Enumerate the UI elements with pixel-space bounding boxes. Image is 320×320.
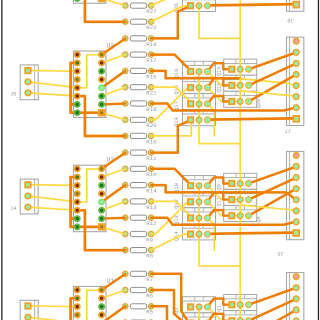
wire J pin2 to U pin lp5 xyxy=(28,82,77,88)
svg-text:R9: R9 xyxy=(146,236,153,243)
wire U rp2 to R17 left xyxy=(102,55,126,63)
transistor Q8 xyxy=(224,206,257,222)
wire U rp8 to R20 left xyxy=(102,227,126,234)
connector J7 (8-pin output header) xyxy=(287,37,304,125)
svg-text:R8: R8 xyxy=(146,253,153,260)
resistor R14 xyxy=(130,183,146,188)
wire QB1 to J pad2 xyxy=(249,288,297,305)
svg-text:J5: J5 xyxy=(277,250,284,257)
wire QA2 collector to QB2 base xyxy=(207,193,228,202)
wire R7 right riser down xyxy=(151,274,187,320)
svg-text:Q20: Q20 xyxy=(256,99,262,109)
transistor Q1 xyxy=(224,295,257,311)
svg-text:Q15: Q15 xyxy=(216,67,222,77)
wire U rp5 to R15 left xyxy=(102,185,126,202)
resistor R7 xyxy=(130,271,146,276)
wire QA1 collector to QB1 base xyxy=(207,177,228,185)
wire U rp7 to R18 left xyxy=(102,102,126,105)
wire R17 right to QA1 base xyxy=(151,169,191,186)
transistor Q20 xyxy=(224,91,257,107)
op-amp/driver IC U3 xyxy=(74,51,107,118)
pads of transistor Q12 xyxy=(187,198,194,205)
transistor Q24 xyxy=(183,110,216,126)
op-amp/driver IC U4 xyxy=(74,0,107,3)
wire R16 right to QA4 base xyxy=(151,234,191,250)
svg-text:R12: R12 xyxy=(146,220,157,227)
pads of transistor Q10 xyxy=(187,182,194,189)
svg-text:R6: R6 xyxy=(146,292,153,299)
wire R18 right to J pad7 xyxy=(151,104,296,111)
wire via to J pad5 xyxy=(240,79,296,86)
pads of IC U4 xyxy=(74,0,81,2)
svg-text:R10: R10 xyxy=(146,171,157,178)
resistor R11 xyxy=(130,150,146,155)
svg-text:Q8: Q8 xyxy=(256,216,262,222)
wire J pin2 to U pin lp5 xyxy=(28,317,77,320)
wire QB3 to J pad4 xyxy=(249,189,297,216)
wire U rp8 to R20 left xyxy=(102,113,126,120)
wire U rp5 to R15 left xyxy=(102,306,126,320)
transistor Q19 xyxy=(183,61,216,77)
svg-text:R5: R5 xyxy=(146,309,153,316)
transistor Q14 xyxy=(183,224,216,240)
wire QA4 collector to J square pad xyxy=(207,118,294,119)
svg-text:R23: R23 xyxy=(146,24,157,31)
pads of connector J6 xyxy=(24,67,31,74)
transistor Q13 xyxy=(183,208,216,224)
svg-text:J9: J9 xyxy=(287,17,294,24)
transistor Q18 xyxy=(224,75,257,91)
board edge left xyxy=(1,0,2,320)
svg-text:R15: R15 xyxy=(146,73,157,80)
pads of transistor Q14 xyxy=(187,231,194,238)
wire U rp1 to R19 left xyxy=(102,274,126,290)
wire R21 right to QA3 base xyxy=(151,87,191,103)
wire to J pad6 xyxy=(240,91,296,96)
transistor Q9 xyxy=(224,173,257,189)
svg-text:R7: R7 xyxy=(146,276,153,283)
wire QA3 stub xyxy=(207,218,214,250)
transistor Q11 xyxy=(224,189,257,205)
op-amp/driver IC U1 xyxy=(74,286,107,320)
wire QB2 to J pad3 xyxy=(249,299,297,320)
wire QB middle-pad chain xyxy=(239,305,241,320)
wire QA3 collector to QB3 base xyxy=(207,96,228,104)
transistor Q3 xyxy=(224,311,257,320)
pads of transistor Q2 xyxy=(187,303,194,310)
resistor R16 xyxy=(130,133,146,138)
wire QB1 to J pad2 xyxy=(249,52,297,69)
wire U internal lp5 to rp1 xyxy=(77,169,101,202)
transistor Q2 xyxy=(183,297,216,313)
wire U ground bus xyxy=(71,63,102,113)
svg-text:R21: R21 xyxy=(146,90,157,97)
resistor R19 xyxy=(130,36,146,41)
wire R5 right down xyxy=(151,306,167,320)
wire R20 right to QA2 base xyxy=(151,202,191,234)
wire U rp2 to R17 left xyxy=(102,290,126,298)
wire QB3 to J pad4 xyxy=(249,75,297,102)
wire U rp5 to R15 left xyxy=(102,71,126,88)
connector J5 (8-pin output header) xyxy=(287,151,304,239)
pads of connector J9 xyxy=(292,1,300,9)
svg-text:R13: R13 xyxy=(146,204,157,211)
svg-text:R16: R16 xyxy=(146,138,157,145)
wire QA1 collector to QB1 base xyxy=(207,299,228,307)
wire QB2 to J pad3 xyxy=(249,64,297,86)
svg-text:R11: R11 xyxy=(146,155,157,162)
pads of transistor Q3 xyxy=(228,317,235,320)
wire U rp8 to R20 left xyxy=(102,0,126,6)
pads of IC U2 xyxy=(74,165,81,172)
pads of IC U3 xyxy=(74,51,81,58)
connector J4 (3-pin input header) xyxy=(20,179,38,214)
svg-text:R17: R17 xyxy=(146,57,156,64)
wire R16 right to QA4 base xyxy=(151,120,191,136)
pads of transistor Q24 xyxy=(187,116,194,123)
transistor Q10 xyxy=(183,176,216,192)
transistor Q4 xyxy=(183,313,216,320)
wire QA2 right diag xyxy=(207,202,240,216)
wire J pin1 to U pin lp3 xyxy=(28,184,77,187)
wire R15 right to J pad5 xyxy=(151,185,296,200)
transistor Q15 xyxy=(224,59,257,75)
wire R15 right horizontal xyxy=(151,71,240,78)
pads of transistor Q18 xyxy=(228,82,235,89)
wire Q middle-pad common chain xyxy=(199,72,240,144)
wire QA1 right diag xyxy=(207,72,240,86)
wire QA1 right diag xyxy=(207,186,240,200)
wire J pin2 to U pin lp5 xyxy=(28,196,77,202)
wire J pin1 to U pin lp3 xyxy=(28,69,77,72)
resistor R9 xyxy=(130,231,146,236)
svg-text:J6: J6 xyxy=(10,92,16,98)
resistor R5 xyxy=(130,304,146,309)
connector J9 (8-pin output header) xyxy=(287,0,304,11)
connector J3 (8-pin output header) xyxy=(287,273,304,320)
resistor R13 xyxy=(130,199,146,204)
wire U rp1 to R19 left xyxy=(102,39,126,55)
svg-text:Q1: Q1 xyxy=(216,305,222,311)
wire QA2 collector to QB2 base xyxy=(207,78,228,87)
resistor R8 xyxy=(130,248,146,253)
wire R18 right to J pad7 xyxy=(151,218,296,225)
pads of transistor Q16 xyxy=(187,84,194,91)
wire QA1 collector to QB1 base xyxy=(207,63,228,71)
svg-text:J4: J4 xyxy=(10,206,16,212)
wire R20 right to QA2 base xyxy=(151,88,191,120)
wire QA4 collector to J square pad xyxy=(207,4,294,5)
wire QB3 to J pad4 xyxy=(249,310,297,320)
connector J6 (3-pin input header) xyxy=(20,65,38,100)
pads of IC U1 xyxy=(74,287,81,294)
pads of transistor Q19 xyxy=(187,68,194,75)
resistor R6 xyxy=(130,287,146,292)
wire QA2 collector to QB2 base xyxy=(207,314,228,320)
transistor Q17 xyxy=(183,94,216,110)
pads of connector J3 xyxy=(293,273,300,280)
wire U lp6 to R16 left xyxy=(77,96,125,136)
pads of transistor Q17 xyxy=(187,100,194,107)
svg-text:R18: R18 xyxy=(146,106,157,113)
wire R21 right to QA3 base xyxy=(151,201,191,217)
pads of transistor Q4 xyxy=(187,319,194,320)
wire QA2 right diag xyxy=(207,88,240,102)
resistor R10 xyxy=(130,166,146,171)
wire QA4 collector to J square pad xyxy=(207,233,294,234)
wire U internal lp5 to rp1 xyxy=(77,55,101,88)
wire Q middle-pad common chain xyxy=(199,186,240,266)
wire bus branch lp7 xyxy=(71,103,78,106)
resistor R27 xyxy=(130,3,146,8)
wire QB2 to J pad3 xyxy=(249,178,297,200)
wire U lp6 to R16 left xyxy=(77,0,125,22)
resistor R21 xyxy=(130,85,146,90)
wire U rp7 to R18 left xyxy=(102,217,126,220)
pads of transistor Q26 xyxy=(187,2,194,9)
transistor Q12 xyxy=(183,192,216,208)
wire QB middle-pad chain xyxy=(239,69,241,183)
wire U ground bus xyxy=(71,177,102,227)
wire U internal lp5 to rp1 xyxy=(77,290,101,320)
op-amp/driver IC U2 xyxy=(74,165,107,232)
wire R6 right riser down xyxy=(151,290,181,320)
svg-text:Q9: Q9 xyxy=(216,184,222,190)
wire R17 right to QA1 base xyxy=(151,55,191,72)
wire QA3 collector to QB3 base xyxy=(207,210,228,218)
resistor R17 xyxy=(130,52,146,57)
wire QB middle-pad chain xyxy=(239,184,241,305)
svg-text:R19: R19 xyxy=(146,41,157,48)
resistor R20 xyxy=(130,117,146,122)
svg-text:R20: R20 xyxy=(146,122,157,129)
wire U rp2 to R17 left xyxy=(102,169,126,177)
wire Q middle-pad common chain xyxy=(199,5,240,38)
resistor R23 xyxy=(130,19,146,24)
pads of transistor Q15 xyxy=(228,66,235,73)
pads of transistor Q11 xyxy=(228,196,235,203)
wire R19 right riser to QA4 base above xyxy=(151,120,191,153)
wire U lp6 to R16 left xyxy=(77,210,125,250)
pads of transistor Q9 xyxy=(228,180,235,187)
wire J pin1 to U pin lp3 xyxy=(28,305,77,308)
wire J pin3 to U pin lp6 xyxy=(28,207,77,210)
svg-text:J7: J7 xyxy=(285,128,292,135)
pads of connector J5 xyxy=(293,152,300,159)
resistor R15 xyxy=(130,68,146,73)
wire bus branch lp7 xyxy=(71,217,78,220)
resistor R12 xyxy=(130,215,146,220)
connector J2 (3-pin input header) xyxy=(20,300,38,320)
pads of connector J4 xyxy=(24,181,31,188)
board edge right xyxy=(318,0,319,320)
wire to J pad6 xyxy=(240,205,296,210)
pads of transistor Q1 xyxy=(228,301,235,308)
svg-text:R14: R14 xyxy=(146,188,157,195)
pads of transistor Q13 xyxy=(187,214,194,221)
transistor Q16 xyxy=(183,77,216,93)
wire U rp6 to R21 left xyxy=(102,87,126,96)
wire Q middle-pad common chain xyxy=(198,307,200,320)
wire R16 right to QA4 base xyxy=(151,6,191,22)
wire QB middle-pad chain xyxy=(239,0,241,69)
wire U rp6 to R21 left xyxy=(102,201,126,210)
pads of transistor Q20 xyxy=(228,98,235,105)
pads of connector J7 xyxy=(293,38,300,45)
wire R19 right riser to QA4 base above xyxy=(151,6,191,39)
pads of transistor Q8 xyxy=(228,212,235,219)
wire U rp1 to R19 left xyxy=(102,153,126,169)
wire U ground bus xyxy=(71,298,102,320)
wire QA3 stub xyxy=(207,104,214,136)
wire R20 right to QA2 base xyxy=(151,0,191,6)
wire QA1 right diag xyxy=(207,307,240,320)
svg-text:R27: R27 xyxy=(146,8,156,15)
transistor Q26 xyxy=(183,0,216,12)
pads of connector J2 xyxy=(24,302,31,309)
wire J pin3 to U pin lp6 xyxy=(28,93,77,96)
wire QB1 to J pad2 xyxy=(249,167,297,184)
resistor R18 xyxy=(130,101,146,106)
